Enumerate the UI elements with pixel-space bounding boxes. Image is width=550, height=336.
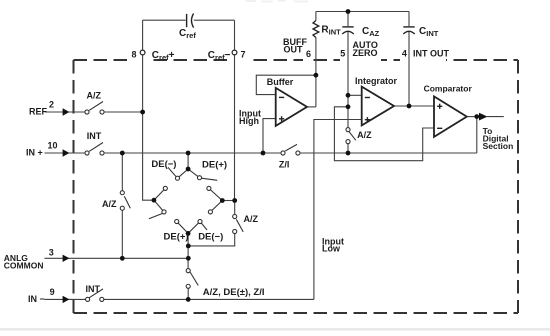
svg-text:4: 4 [402,49,407,59]
svg-text:Integrator: Integrator [355,76,398,86]
svg-text:8: 8 [132,50,137,60]
svg-text:Cref: Cref [179,28,196,40]
svg-text:ZERO: ZERO [353,48,378,58]
svg-text:DE(+): DE(+) [164,232,189,243]
svg-text:REF: REF [29,107,48,117]
svg-text:A/Z: A/Z [102,199,117,209]
svg-text:A/Z, DE(±), Z/I: A/Z, DE(±), Z/I [203,287,265,298]
svg-text:DE(+): DE(+) [202,160,227,171]
svg-text:RINT: RINT [321,24,341,36]
svg-text:Z/I: Z/I [279,159,290,169]
svg-text:High: High [239,116,259,126]
svg-text:INT: INT [87,131,102,141]
svg-text:7: 7 [241,50,246,60]
svg-text:Low: Low [322,244,341,254]
svg-text:Buffer: Buffer [267,77,294,87]
svg-text:INT OUT: INT OUT [413,49,449,59]
svg-text:CAZ: CAZ [362,26,380,38]
svg-text:OUT: OUT [284,44,304,54]
svg-text:3: 3 [49,248,54,258]
svg-text:Cref+: Cref+ [152,50,175,62]
svg-text:Section: Section [483,141,514,151]
svg-text:DE(−): DE(−) [198,232,223,243]
svg-text:2: 2 [49,100,54,110]
svg-text:A/Z: A/Z [357,130,372,140]
svg-text:A/Z: A/Z [87,90,102,100]
svg-text:10: 10 [48,140,58,150]
svg-text:DE(−): DE(−) [151,159,176,170]
svg-text:9: 9 [50,287,55,297]
svg-text:6: 6 [306,49,311,59]
svg-text:IN +: IN + [26,148,43,158]
svg-text:CINT: CINT [419,26,439,38]
svg-text:COMMON: COMMON [4,261,44,271]
svg-text:Cref−: Cref− [208,50,231,62]
svg-text:A/Z: A/Z [244,214,259,224]
svg-text:5: 5 [340,48,345,58]
svg-text:INT: INT [86,284,101,294]
svg-text:IN −: IN − [28,294,45,304]
svg-text:Comparator: Comparator [424,84,473,94]
